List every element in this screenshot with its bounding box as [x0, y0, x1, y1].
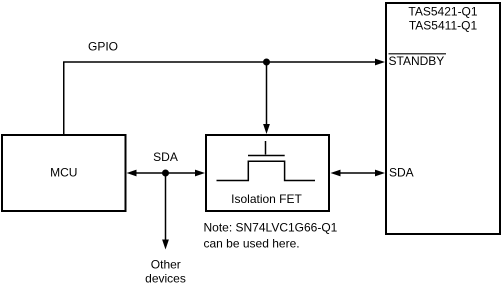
- svg-text:MCU: MCU: [50, 166, 77, 180]
- arrowhead into Isolation FET left: [195, 170, 205, 177]
- arrowhead into Isolation FET right: [331, 170, 341, 177]
- box U1 TAS5421-Q1 / TAS5411-Q1: [386, 3, 500, 234]
- wire SDA branch down to other devices: [165, 173, 167, 240]
- svg-text:Other: Other: [151, 258, 181, 272]
- label Other devices: [145, 258, 186, 286]
- wire SDA between Isolation FET and TAS device: [339, 172, 376, 174]
- wire SDA between MCU and Isolation FET: [134, 172, 198, 174]
- svg-text:SDA: SDA: [153, 150, 178, 164]
- transistor FET symbol: channel: [217, 161, 316, 180]
- node SDA junction: [162, 170, 169, 177]
- arrowhead to other devices: [162, 240, 169, 250]
- arrowhead into TAS SDA pin: [375, 170, 385, 177]
- node GPIO junction: [263, 59, 270, 66]
- pin label STANDBY (active low): [389, 54, 447, 68]
- svg-text:STANDBY: STANDBY: [389, 54, 445, 68]
- wire GPIO branch down to Isolation FET gate: [266, 62, 268, 125]
- transistor FET symbol: gate bar: [248, 155, 285, 157]
- transistor FET symbol: gate stub: [265, 141, 267, 155]
- wire GPIO vertical from MCU top: [63, 62, 65, 134]
- svg-text:TAS5421-Q1: TAS5421-Q1: [408, 4, 477, 18]
- arrowhead into MCU: [127, 170, 137, 177]
- wire GPIO horizontal run to STANDBY: [63, 61, 376, 63]
- box Isolation FET: [206, 135, 329, 211]
- box MCU: [2, 135, 126, 211]
- svg-text:TAS5411-Q1: TAS5411-Q1: [409, 18, 478, 32]
- svg-text:GPIO: GPIO: [88, 40, 118, 54]
- note text: [204, 221, 338, 251]
- svg-text:Note: SN74LVC1G66-Q1: Note: SN74LVC1G66-Q1: [204, 221, 338, 235]
- svg-text:SDA: SDA: [389, 166, 414, 180]
- arrowhead into STANDBY pin: [375, 59, 385, 66]
- svg-text:devices: devices: [145, 272, 186, 286]
- svg-text:Isolation FET: Isolation FET: [231, 192, 302, 206]
- svg-text:can be used here.: can be used here.: [204, 237, 300, 251]
- arrowhead into Isolation FET: [263, 124, 270, 134]
